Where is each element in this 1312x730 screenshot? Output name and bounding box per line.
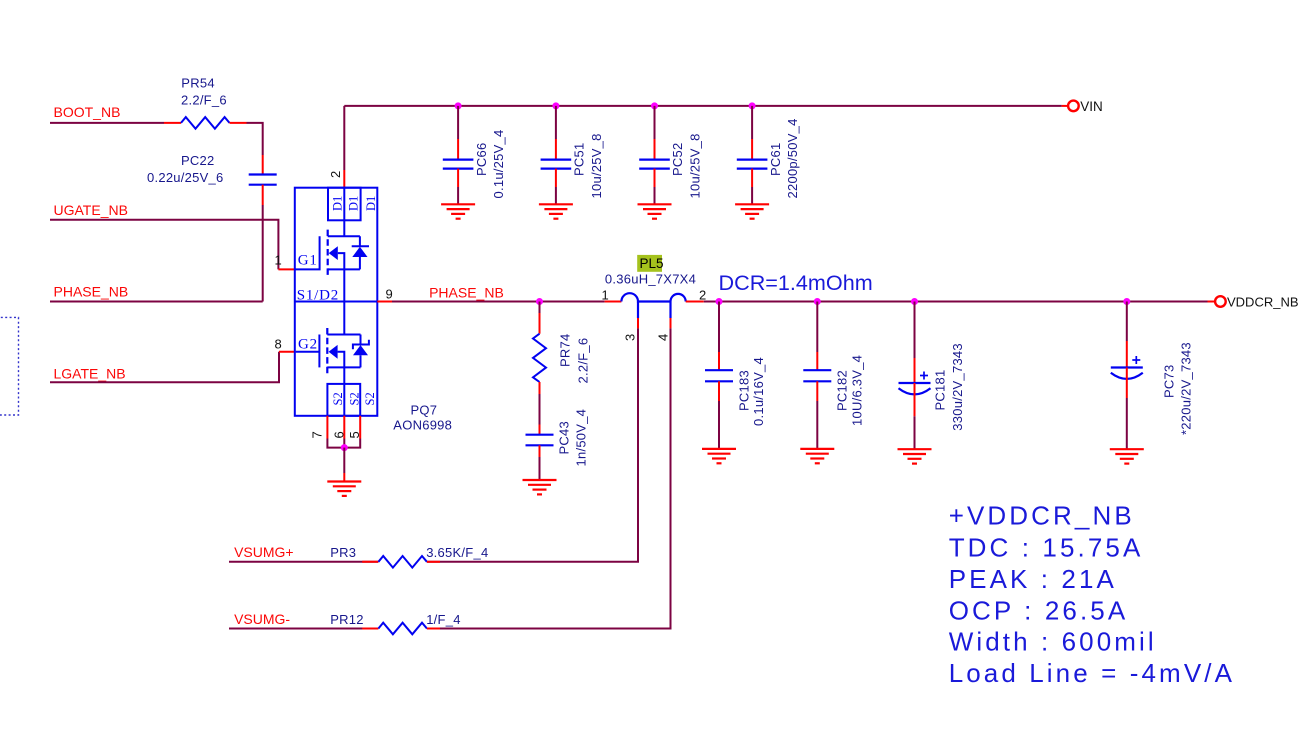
wire PHASE_NB horizontal (left) — [50, 301, 263, 303]
resistor PR54 — [181, 117, 230, 129]
svg-text:G1: G1 — [298, 252, 318, 268]
svg-text:S2: S2 — [348, 392, 362, 405]
capacitor PC52 pin 1 stub — [654, 139, 656, 160]
inductor PL5 pin 1 stub — [605, 301, 622, 303]
svg-text:0.22u/25V_6: 0.22u/25V_6 — [147, 170, 223, 185]
mosfet Q2 body link — [338, 352, 345, 368]
transistor PQ7 pin 8 stub (G2) — [279, 351, 296, 353]
svg-text:VIN: VIN — [1080, 99, 1103, 114]
resistor PR54 pin 1 stub — [164, 122, 181, 124]
mosfet Q2 drain riser from S1/D2 — [343, 302, 345, 335]
resistor PR3 (over VSUMG+ wire) — [378, 554, 427, 569]
terminal VIN stub — [1062, 105, 1068, 107]
mosfet Q1 channel (dashed) — [327, 230, 329, 276]
capacitor PC183 wire from rail — [718, 302, 720, 353]
svg-text:10U/6.3V_4: 10U/6.3V_4 — [849, 355, 864, 426]
svg-text:2: 2 — [699, 288, 706, 303]
svg-text:1: 1 — [275, 252, 282, 267]
svg-text:PC61: PC61 — [768, 142, 783, 176]
resistor PR12 (over VSUMG- wire) — [378, 621, 427, 636]
svg-text:UGATE_NB: UGATE_NB — [54, 202, 128, 218]
ground (PC181) — [898, 449, 932, 463]
capacitor PC61 pin 2 stub — [751, 169, 753, 187]
capacitor PC182 wire from rail — [816, 302, 818, 353]
resistor PR74 (vertical) — [533, 334, 546, 382]
wire PHASE_NB down to PR74 — [539, 302, 541, 314]
capacitor PC52 — [639, 160, 670, 169]
capacitor PC51 wire from bus — [555, 106, 557, 139]
svg-text:5: 5 — [347, 431, 362, 438]
resistor PR12 pin 2 stub — [427, 628, 440, 630]
capacitor PC73 wire to ground — [1126, 398, 1128, 449]
terminal VIN circle — [1068, 101, 1079, 112]
wire PHASE_NB pin9 to inductor — [392, 301, 605, 303]
mosfet Q2 source riser to S2 pads — [343, 367, 345, 384]
ground (PC51) — [539, 204, 573, 218]
inductor PL5 pin 4 stub — [670, 318, 672, 328]
mosfet Q1 (upper) gate lead — [295, 236, 319, 269]
mosfet Q1 body diode leads — [359, 236, 361, 269]
svg-text:0.36uH_7X7X4: 0.36uH_7X7X4 — [605, 271, 696, 286]
capacitor PC182 pin 2 stub — [816, 381, 818, 401]
mosfet Q2 gate plate — [318, 335, 320, 368]
capacitor PC52 pin 2 stub — [654, 169, 656, 187]
transistor PQ7 outer body box — [295, 188, 378, 416]
capacitor PC22 — [249, 175, 277, 185]
svg-text:1/F_4: 1/F_4 — [426, 612, 461, 627]
svg-text:PR12: PR12 — [330, 612, 364, 627]
capacitor PC51 pin 2 stub — [555, 169, 557, 187]
svg-text:PC73: PC73 — [1162, 364, 1177, 398]
ground (PC66) — [441, 204, 475, 218]
svg-text:2200p/50V_4: 2200p/50V_4 — [785, 118, 800, 198]
transistor PQ7 pin 1 stub (G1) — [278, 268, 295, 270]
ground (PC52) — [638, 204, 672, 218]
capacitor PC183 pin 1 stub — [718, 352, 720, 370]
wire pin2 vertical from bus — [343, 106, 345, 170]
junction top bus at PC52 — [651, 102, 658, 109]
svg-text:0.1u/16V_4: 0.1u/16V_4 — [751, 357, 766, 426]
transistor PQ7 pin 6 stub — [343, 416, 345, 439]
svg-text:PR74: PR74 — [558, 333, 573, 367]
capacitor PC181 wire to ground — [914, 416, 916, 449]
mosfet Q1 body arrow — [329, 246, 338, 260]
svg-text:D1: D1 — [347, 196, 361, 211]
svg-text:PC182: PC182 — [835, 370, 850, 411]
capacitor PC66 — [443, 160, 474, 169]
capacitor PC43 pin 1 stub — [539, 425, 541, 435]
transistor PQ7 S1/D2 internal rail — [295, 301, 378, 303]
mosfet Q1 source riser to S1/D2 — [343, 269, 345, 301]
ground (PC182) — [800, 449, 834, 463]
inductor PL5 pin 3 lead — [637, 302, 639, 319]
svg-text:DCR=1.4mOhm: DCR=1.4mOhm — [719, 270, 873, 295]
mosfet Q1 drain riser — [343, 220, 345, 236]
svg-text:0.1u/25V_4: 0.1u/25V_4 — [491, 129, 506, 198]
resistor PR3 pin 2 stub — [427, 561, 440, 563]
svg-text:2.2/F_6: 2.2/F_6 — [576, 338, 591, 384]
wire PR74 to PC43 — [539, 394, 541, 425]
capacitor PC182 — [803, 370, 831, 381]
svg-text:S2: S2 — [331, 392, 345, 405]
inductor PL5 winding — [621, 293, 685, 301]
svg-text:10u/25V_8: 10u/25V_8 — [589, 133, 604, 198]
svg-text:PQ7: PQ7 — [411, 402, 438, 417]
svg-text:+VDDCR_NB: +VDDCR_NB — [949, 501, 1135, 531]
capacitor PC183 pin 2 stub — [718, 381, 720, 401]
svg-text:PC52: PC52 — [670, 142, 685, 176]
capacitor PC22 pin 2 stub — [262, 185, 264, 205]
capacitor PC22 pin 1 stub — [262, 155, 264, 175]
svg-text:Width : 600mil: Width : 600mil — [949, 627, 1157, 657]
capacitor PC181 pin 2 stub — [914, 383, 916, 416]
svg-text:9: 9 — [386, 287, 393, 302]
svg-text:PC51: PC51 — [572, 142, 587, 176]
terminal VDDCR_NB circle — [1215, 296, 1226, 307]
capacitor PC66 wire to ground — [457, 187, 459, 204]
wire BOOT_NB to PC22 corner — [247, 123, 263, 155]
junction top bus at PC66 — [455, 102, 462, 109]
mosfet Q2 drain stub — [327, 334, 360, 336]
inductor PL5 pin 4 lead — [669, 302, 671, 319]
svg-text:7: 7 — [309, 431, 324, 438]
capacitor PC183 wire to ground — [718, 401, 720, 449]
svg-text:G2: G2 — [298, 337, 318, 353]
capacitor PC51 pin 1 stub — [555, 139, 557, 160]
wire PC22 to PHASE_NB vertical — [262, 205, 264, 302]
svg-text:OCP : 26.5A: OCP : 26.5A — [949, 596, 1129, 626]
svg-text:LGATE_NB: LGATE_NB — [54, 366, 126, 382]
junction rail at PC183 — [716, 298, 723, 305]
resistor PR74 pin 2 stub — [539, 382, 541, 394]
wire LGATE_NB horizontal and corner up — [50, 352, 279, 383]
mosfet Q2 source stub — [327, 366, 360, 368]
ground (PC43) — [523, 480, 557, 494]
svg-text:PC66: PC66 — [474, 142, 489, 176]
capacitor PC73 pin 1 stub — [1126, 341, 1128, 368]
svg-text:1n/50V_4: 1n/50V_4 — [574, 409, 589, 467]
svg-text:PC183: PC183 — [736, 370, 751, 411]
svg-text:4: 4 — [656, 334, 671, 341]
capacitor PC73 wire from rail — [1126, 302, 1128, 342]
mosfet Q1 source stub — [328, 268, 360, 270]
svg-text:S2: S2 — [363, 392, 377, 405]
wire joining pins 5 6 7 — [327, 439, 360, 448]
mosfet Q1 body diode anode triangle — [352, 247, 367, 257]
capacitor PC182 pin 1 stub — [816, 352, 818, 370]
svg-text:D1: D1 — [364, 196, 378, 211]
wire source ground tip — [343, 473, 345, 482]
ground (PC73) — [1110, 449, 1144, 463]
dotted selection box (left edge) — [0, 317, 19, 415]
ground (PC183) — [702, 449, 736, 463]
capacitor PC182 wire to ground — [816, 401, 818, 449]
transistor PQ7 pin 5 stub — [359, 416, 361, 439]
transistor PQ7 D1 pad box — [328, 188, 361, 221]
note +VDDCR_NB spec block — [949, 501, 1235, 689]
resistor PR74 pin 1 stub — [539, 313, 541, 334]
capacitor PC181 pin 1 stub — [914, 358, 916, 383]
mosfet Q1 drain stub — [328, 235, 360, 237]
svg-text:10u/25V_8: 10u/25V_8 — [687, 133, 702, 198]
svg-text:PHASE_NB: PHASE_NB — [429, 285, 504, 301]
junction top bus at PC61 — [749, 102, 756, 109]
svg-text:PC181: PC181 — [932, 370, 947, 411]
capacitor PC51 — [541, 160, 572, 169]
inductor PL5 pin 2 stub — [686, 301, 704, 303]
svg-text:AON6998: AON6998 — [393, 418, 452, 433]
terminal VDDCR_NB stub — [1208, 301, 1216, 303]
wire pin 6 drop — [343, 439, 345, 448]
capacitor PC66 pin 2 stub — [457, 169, 459, 187]
transistor PQ7 pin 9 stub (S1/D2) — [377, 301, 392, 303]
inductor PL5 highlight box — [637, 255, 662, 272]
mosfet Q2 body diode cathode — [353, 340, 369, 350]
junction PHASE_NB at PR74 — [536, 298, 543, 305]
wire PC43 to ground — [539, 457, 541, 480]
mosfet Q2 (lower) gate lead — [296, 351, 320, 353]
mosfet Q2 body diode leads — [360, 335, 362, 368]
capacitor PC61 pin 1 stub — [751, 139, 753, 160]
capacitor PC61 wire to ground — [751, 187, 753, 204]
svg-text:PC22: PC22 — [181, 153, 215, 168]
wire BOOT_NB horizontal — [50, 122, 164, 124]
transistor PQ7 pin 2 stub (D1) — [343, 170, 345, 188]
capacitor PC181 (polarized) — [899, 372, 931, 395]
svg-text:PR3: PR3 — [330, 545, 356, 560]
mosfet Q2 channel (dashed) — [326, 328, 328, 376]
mosfet Q1 body diode cathode — [352, 245, 369, 247]
mosfet Q2 body arrow — [329, 345, 338, 359]
junction rail at PC182 — [814, 298, 821, 305]
transistor PQ7 pin 7 stub — [326, 416, 328, 439]
svg-text:2.2/F_6: 2.2/F_6 — [181, 92, 227, 107]
capacitor PC61 — [737, 160, 768, 169]
svg-text:2: 2 — [328, 171, 343, 178]
capacitor PC52 wire to ground — [654, 187, 656, 204]
inductor PL5 pin 3 stub — [637, 318, 639, 328]
svg-text:PHASE_NB: PHASE_NB — [54, 284, 129, 300]
transistor PQ7 S2 pad box — [327, 384, 360, 416]
svg-text:BOOT_NB: BOOT_NB — [54, 104, 121, 120]
svg-text:330u/2V_7343: 330u/2V_7343 — [950, 343, 965, 431]
svg-text:8: 8 — [275, 337, 282, 352]
resistor PR12 pin 1 stub — [362, 628, 378, 630]
capacitor PC181 wire from rail — [914, 302, 916, 359]
svg-text:*220u/2V_7343: *220u/2V_7343 — [1178, 342, 1193, 435]
capacitor PC43 — [526, 435, 554, 446]
svg-text:1: 1 — [602, 287, 609, 302]
resistor PR3 pin 1 stub — [362, 561, 378, 563]
wire VDDCR_NB output rail — [704, 301, 1208, 303]
junction rail at PC73 — [1123, 298, 1130, 305]
svg-text:PL5: PL5 — [640, 256, 664, 271]
svg-text:Load Line = -4mV/A: Load Line = -4mV/A — [949, 658, 1235, 688]
svg-text:VSUMG-: VSUMG- — [234, 611, 290, 627]
capacitor PC61 wire from bus — [751, 106, 753, 139]
svg-text:PC43: PC43 — [557, 421, 572, 455]
capacitor PC51 wire to ground — [555, 187, 557, 204]
junction top bus at PC51 — [552, 102, 559, 109]
wire UGATE_NB horizontal and corner down — [50, 220, 278, 270]
wire pin 4 down to VSUMG- — [229, 328, 671, 628]
svg-text:3: 3 — [622, 334, 637, 341]
svg-text:TDC : 15.75A: TDC : 15.75A — [949, 532, 1144, 562]
svg-text:VSUMG+: VSUMG+ — [234, 544, 294, 560]
junction source node — [341, 444, 348, 451]
svg-text:PEAK : 21A: PEAK : 21A — [949, 564, 1117, 594]
resistor PR54 pin 2 stub — [230, 122, 247, 124]
svg-text:3.65K/F_4: 3.65K/F_4 — [426, 545, 488, 560]
svg-text:PR54: PR54 — [181, 75, 215, 90]
junction rail at PC181 — [911, 298, 918, 305]
capacitor PC183 — [705, 370, 733, 381]
capacitor PC73 (polarized) — [1111, 356, 1143, 379]
capacitor PC66 wire from bus — [457, 106, 459, 139]
svg-text:VDDCR_NB: VDDCR_NB — [1227, 294, 1299, 309]
wire VIN top bus — [344, 105, 1061, 107]
svg-text:6: 6 — [332, 431, 347, 438]
wire pin 3 down to VSUMG+ — [229, 328, 638, 561]
capacitor PC73 pin 2 stub — [1126, 368, 1128, 399]
capacitor PC43 pin 2 stub — [539, 445, 541, 457]
wire source node to ground — [343, 448, 345, 473]
capacitor PC66 pin 1 stub — [457, 139, 459, 160]
capacitor PC52 wire from bus — [654, 106, 656, 139]
svg-text:D1: D1 — [330, 196, 344, 211]
ground (PQ7 source) — [327, 482, 361, 496]
ground (PC61) — [735, 204, 769, 218]
mosfet Q2 body diode anode triangle — [353, 345, 368, 355]
mosfet Q1 body link — [338, 253, 345, 269]
